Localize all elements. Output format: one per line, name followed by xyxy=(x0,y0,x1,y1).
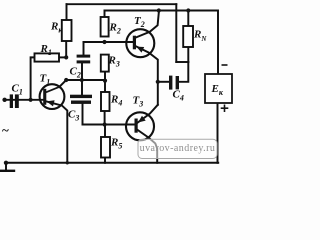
wire R4 bottom lead xyxy=(104,111,106,125)
svg-text:uvarov-andrey.ru: uvarov-andrey.ru xyxy=(140,143,216,154)
node input bottom xyxy=(4,161,8,165)
transistor T2 xyxy=(126,29,154,57)
node T1 base / R1 xyxy=(29,98,33,102)
resistor R5 xyxy=(101,137,110,158)
transistor T3 xyxy=(126,112,154,140)
wire T3 emitter diagonal xyxy=(137,105,157,123)
wire R2 top lead xyxy=(104,11,106,18)
node R1-Rk junction xyxy=(64,55,68,59)
wire C2-C3 vertical xyxy=(81,63,83,95)
svg-text:~: ~ xyxy=(2,123,9,138)
wire mid horizontal node xyxy=(66,79,105,81)
wire R1 left lead down to base node xyxy=(31,57,35,99)
resistor R4 xyxy=(101,92,110,111)
node T2 base junction xyxy=(102,40,106,44)
resistor R3 xyxy=(101,55,109,72)
svg-text:C4: C4 xyxy=(173,89,184,103)
wire R5 top lead xyxy=(104,125,106,138)
wire bootstrap vertical right xyxy=(175,4,177,62)
wire T2 emitter output vertical xyxy=(136,46,158,105)
wire input to T1 base xyxy=(5,99,44,101)
wire T3 collector to ground rail xyxy=(137,130,157,163)
transistor T1 xyxy=(40,84,65,109)
node Rn rail xyxy=(186,8,190,12)
node output C4 tap xyxy=(156,80,160,84)
svg-text:T2: T2 xyxy=(134,15,145,29)
svg-text:T3: T3 xyxy=(133,95,144,109)
wire inner supply rail xyxy=(105,11,219,75)
wire C4 left lead xyxy=(158,81,169,83)
svg-text:C1: C1 xyxy=(12,83,23,97)
wire T2 collector to rail xyxy=(136,13,159,38)
svg-text:R5: R5 xyxy=(110,137,122,151)
node T1 emitter ground xyxy=(66,161,69,164)
svg-text:R1: R1 xyxy=(40,43,52,57)
node T1 collector xyxy=(64,78,68,82)
svg-text:R4: R4 xyxy=(110,94,122,108)
capacitor C4 xyxy=(169,76,172,90)
battery plus sign xyxy=(221,105,229,113)
wire Rk top lead xyxy=(66,4,68,20)
battery Ek box xyxy=(205,74,232,103)
resistor Rk xyxy=(62,20,72,41)
svg-text:RN: RN xyxy=(193,29,207,44)
node R3-R4 junction xyxy=(103,79,107,83)
wire R5 bottom lead xyxy=(104,158,106,163)
wire lower input stub xyxy=(5,163,7,171)
wire C2 riser to base node xyxy=(83,42,85,55)
wire Rn top lead xyxy=(187,11,189,27)
capacitor C2 xyxy=(77,55,91,58)
resistor R1 xyxy=(35,53,60,61)
svg-text:R2: R2 xyxy=(109,22,121,36)
wire R1 right lead xyxy=(59,56,66,58)
svg-text:R3: R3 xyxy=(108,55,120,69)
wire output link y62 xyxy=(176,61,188,63)
wire C4 right lead up xyxy=(179,62,188,82)
resistor R2 xyxy=(101,17,109,37)
wire lower input bar xyxy=(1,170,14,172)
resistor Rn xyxy=(183,26,193,47)
node T2 collector rail xyxy=(157,8,161,12)
svg-text:T1: T1 xyxy=(40,73,51,87)
node T3 base junction xyxy=(103,122,107,126)
wire T2 base line xyxy=(84,41,134,43)
wire T1 emitter to ground xyxy=(46,101,67,163)
wire bottom ground rail xyxy=(6,162,218,164)
capacitor C1 xyxy=(10,94,13,108)
svg-text:C3: C3 xyxy=(68,109,79,123)
wire Rn bottom lead xyxy=(187,47,189,62)
wire top bootstrap rail xyxy=(67,3,177,5)
node input top xyxy=(2,98,6,102)
wire R3 bottom to R4 top xyxy=(104,72,106,93)
battery minus sign xyxy=(222,64,228,66)
wire T3 base line xyxy=(83,124,135,126)
capacitor C3 xyxy=(70,95,92,98)
wire T1 collector diagonal xyxy=(59,80,66,87)
node C2-C3 tap xyxy=(80,78,84,82)
wire Ek bottom lead xyxy=(217,103,219,163)
wire Rk bottom lead xyxy=(65,41,67,57)
watermark box xyxy=(138,139,217,158)
svg-text:C2: C2 xyxy=(70,66,81,80)
wire C3 bottom lead xyxy=(82,104,84,125)
